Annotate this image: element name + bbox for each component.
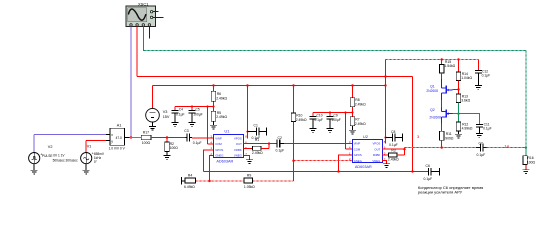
wire R17 to C3 <box>151 137 186 139</box>
svg-text:1.04kΩ: 1.04kΩ <box>461 76 472 80</box>
node junction GPOS net x338 <box>337 170 339 172</box>
wire A1 out to R17 <box>129 137 141 139</box>
resistor R3 <box>382 148 405 162</box>
svg-text:VNEG: VNEG <box>372 159 380 163</box>
svg-text:0.1µF: 0.1µF <box>424 177 433 181</box>
node junction C9 <box>329 111 331 113</box>
svg-text:x: x <box>111 133 113 137</box>
node junction Q2 gate green <box>457 113 459 115</box>
node junction rail2 R6 <box>212 84 214 86</box>
capacitor C12 <box>475 60 490 86</box>
svg-text:0.1µF: 0.1µF <box>482 74 491 78</box>
ground R5 <box>210 125 217 129</box>
svg-text:FDBK: FDBK <box>373 153 381 157</box>
resistor R4 <box>182 173 196 188</box>
wire C2 to U2 VINP <box>284 143 352 145</box>
resistor R11 <box>440 124 454 148</box>
wire green R13-R12 column <box>458 103 460 123</box>
resistor R15 <box>440 60 456 80</box>
svg-text:100Ω: 100Ω <box>142 141 151 145</box>
ground R12 <box>455 134 462 138</box>
svg-text:2.49kΩ: 2.49kΩ <box>216 115 227 119</box>
wire green vertical x526 <box>525 51 527 148</box>
node junction green x526 <box>525 146 527 148</box>
svg-text:C6: C6 <box>426 164 430 168</box>
resistor R14 <box>456 60 472 95</box>
node junction R6-R5 <box>212 105 214 107</box>
capacitor C4 <box>172 107 185 123</box>
wire green C7 to x526 <box>487 147 526 149</box>
node junction rail2 x352 <box>351 84 353 86</box>
svg-text:C7: C7 <box>479 141 483 145</box>
node junction R2 tap <box>166 136 168 138</box>
ground C9 <box>327 129 334 133</box>
svg-text:100Ω: 100Ω <box>527 160 536 164</box>
IC U2 AD603AR <box>349 134 386 169</box>
wire green y50 <box>143 50 526 52</box>
capacitor C8 <box>386 130 403 147</box>
node junction COM2 column <box>344 111 346 113</box>
wire Q2 gate green <box>453 113 459 115</box>
svg-text:0.1µF: 0.1µF <box>314 118 323 122</box>
svg-text:2.49kΩ: 2.49kΩ <box>296 118 307 122</box>
ground C11 <box>476 134 483 138</box>
svg-text:VINP: VINP <box>354 142 361 146</box>
svg-text:100Ω: 100Ω <box>170 146 179 150</box>
ac source V1 <box>81 140 106 170</box>
svg-text:C9: C9 <box>334 113 338 117</box>
bias line y106 first stage <box>175 106 214 108</box>
svg-text:8: 8 <box>245 135 247 139</box>
capacitor C9 <box>327 113 341 129</box>
node junction R8-R7 <box>351 111 353 113</box>
svg-text:C5: C5 <box>196 107 200 111</box>
node junction rail2 end x385 <box>384 84 386 86</box>
svg-text:0.1µF: 0.1µF <box>193 141 202 145</box>
node junction dashed rail R14 <box>457 58 459 60</box>
ground V1 <box>83 170 90 174</box>
svg-text:6.49kΩ: 6.49kΩ <box>184 185 195 189</box>
ground R2 <box>164 156 171 160</box>
node junction GPOS net x412 <box>411 170 413 172</box>
svg-text:3.6kΩ: 3.6kΩ <box>461 99 470 103</box>
wire U2 GNEG dashed <box>294 160 353 162</box>
wire rail2 y85 <box>153 85 386 87</box>
resistor R1 <box>244 138 270 155</box>
svg-text:1.54kΩ: 1.54kΩ <box>444 64 455 68</box>
svg-text:R9: R9 <box>247 173 251 177</box>
svg-text:4.99kΩ: 4.99kΩ <box>462 127 473 131</box>
svg-text:AD603AR: AD603AR <box>355 165 372 169</box>
node junction at A1 output <box>130 136 132 138</box>
wire U1 VNEG to ground <box>244 156 250 160</box>
svg-text:VNEG: VNEG <box>234 154 242 158</box>
svg-text:0.1µF: 0.1µF <box>389 143 398 147</box>
svg-text:0.1µF: 0.1µF <box>477 153 486 157</box>
pulse source V2 <box>29 135 106 170</box>
node junction dashed rail R15 <box>441 58 443 60</box>
svg-text:Q1: Q1 <box>430 85 435 89</box>
svg-text:VPOS: VPOS <box>234 136 242 140</box>
ground C4 <box>172 123 179 127</box>
svg-text:U1: U1 <box>224 129 230 134</box>
scope stub terminal 4 <box>148 26 150 38</box>
ground R7 <box>349 130 356 134</box>
svg-text:VPOS: VPOS <box>373 142 381 146</box>
capacitor C5 <box>189 107 203 123</box>
svg-text:V2: V2 <box>48 145 53 149</box>
node junction R1 feedback <box>268 142 270 144</box>
oscilloscope XSC1 <box>126 1 164 26</box>
svg-text:3: 3 <box>417 134 420 139</box>
svg-text:0.1µF: 0.1µF <box>276 149 285 153</box>
resistor R8 <box>350 86 366 113</box>
svg-text:100µF: 100µF <box>331 118 340 122</box>
svg-text:47.0: 47.0 <box>116 136 122 140</box>
node junction C8 tap <box>384 136 386 138</box>
wire C3 to U1 VINP <box>192 137 214 139</box>
transistor Q2 2N2608 <box>442 107 453 123</box>
svg-text:U2: U2 <box>363 134 369 139</box>
wire U1 OUT to C2 <box>244 143 278 145</box>
svg-text:2.49kΩ: 2.49kΩ <box>252 151 263 155</box>
node junction C5 <box>191 105 193 107</box>
ground R16 <box>522 170 529 174</box>
svg-text:C8: C8 <box>391 130 395 134</box>
resistor R13 <box>456 94 470 103</box>
node junction rail1 x385 <box>384 75 386 77</box>
node junction rail2 x293 <box>292 84 294 86</box>
node junction C1 tap <box>246 130 248 132</box>
node junction R11 green line <box>441 146 443 148</box>
svg-text:1.0 V/V 0 V: 1.0 V/V 0 V <box>109 146 126 150</box>
capacitor C3 <box>184 129 201 145</box>
wire Q1 gate <box>453 89 459 91</box>
svg-text:OUT: OUT <box>374 147 380 151</box>
wire scope C green down <box>142 26 144 51</box>
svg-text:реакции усилителя АРУ: реакции усилителя АРУ <box>418 190 463 195</box>
ground V2 <box>31 170 38 174</box>
svg-text:15V: 15V <box>163 115 170 119</box>
ground C12 <box>475 86 482 90</box>
capacitor C7 <box>476 141 487 157</box>
svg-text:AD603AR: AD603AR <box>216 160 233 164</box>
wire U1 GPOS elbow <box>204 150 214 172</box>
wire U2 OUT <box>382 148 405 150</box>
wire U2 COM stub <box>346 148 353 150</box>
svg-text:500usec 300usec: 500usec 300usec <box>53 159 78 163</box>
wire green to C11 <box>459 114 480 125</box>
svg-text:OUT: OUT <box>236 142 242 146</box>
wire Q1 source to Q2 drain <box>441 100 443 107</box>
svg-text:COM: COM <box>354 147 361 151</box>
svg-text:y: y <box>111 140 113 144</box>
ground V3 <box>149 127 156 131</box>
terminal tick R4 <box>181 177 183 185</box>
wire COM1 vertical x207 <box>207 107 209 145</box>
svg-text:C3: C3 <box>184 129 188 133</box>
svg-text:0.1µF: 0.1µF <box>483 127 492 131</box>
svg-text:GPOS: GPOS <box>215 148 223 152</box>
voltage source V3 15V <box>146 86 170 127</box>
capacitor C6 <box>413 164 440 181</box>
wire gain-control line y171.5 <box>204 171 413 173</box>
svg-text:R1: R1 <box>255 138 259 142</box>
wire scope B red down <box>136 26 138 76</box>
svg-text:C1: C1 <box>254 124 258 128</box>
ground C10 <box>310 129 317 133</box>
resistor R5 <box>211 107 227 126</box>
svg-text:2N2608: 2N2608 <box>426 89 438 93</box>
resistor R10 <box>291 86 307 182</box>
wire U1 COM stub <box>208 143 214 145</box>
svg-text:GNEG: GNEG <box>215 154 223 158</box>
wire vertical x385 <box>385 60 387 144</box>
svg-text:Q2: Q2 <box>430 108 435 112</box>
node junction rail2 x247 <box>246 84 248 86</box>
capacitor C1 <box>248 124 267 140</box>
svg-text:2.49kΩ: 2.49kΩ <box>216 96 227 100</box>
svg-text:A1: A1 <box>117 124 122 128</box>
node junction Q1 gate <box>457 88 459 90</box>
svg-text:VINP: VINP <box>215 136 222 140</box>
wire dashed rail y59 <box>386 59 479 61</box>
svg-text:R17: R17 <box>143 131 149 135</box>
wire U2 GPOS elbow <box>339 155 353 172</box>
capacitor C2 <box>276 136 285 153</box>
svg-text:C2: C2 <box>278 136 282 140</box>
svg-text:C4: C4 <box>179 107 183 111</box>
ground C5 <box>189 123 196 127</box>
svg-text:2N2608: 2N2608 <box>429 115 441 119</box>
svg-text:1.05kΩ: 1.05kΩ <box>244 185 255 189</box>
wire vertical x247 U1 VPOS feed <box>247 86 249 139</box>
svg-text:C10: C10 <box>317 113 323 117</box>
svg-text:0°: 0° <box>94 160 98 164</box>
svg-text:100µF: 100µF <box>193 112 202 116</box>
ground U2 VNEG <box>383 164 390 168</box>
capacitor C11 <box>476 122 492 133</box>
svg-text:XSC1: XSC1 <box>138 1 149 6</box>
svg-text:2.49kΩ: 2.49kΩ <box>355 122 366 126</box>
svg-text:R3: R3 <box>391 149 395 153</box>
wire U1 GNEG elbow <box>210 156 214 182</box>
node junction GNEG1 <box>208 180 210 182</box>
svg-text:2.49kΩ: 2.49kΩ <box>355 102 366 106</box>
wire scope A purple <box>130 26 132 137</box>
capacitor C10 <box>310 113 323 129</box>
node junction GNEG x293 <box>292 160 294 162</box>
svg-text:0V 1 1V: 0V 1 1V <box>53 154 65 158</box>
svg-text:GPOS: GPOS <box>354 153 362 157</box>
wire COM2 vertical x345 <box>345 113 347 150</box>
svg-text:2.49kΩ: 2.49kΩ <box>388 158 399 162</box>
wire vertical x412 <box>412 77 414 173</box>
bias line y112 second stage <box>313 112 353 114</box>
svg-text:GNEG: GNEG <box>354 159 362 163</box>
resistor R6 <box>211 86 227 107</box>
resistor R7 <box>350 113 366 131</box>
svg-text:FDBK: FDBK <box>234 148 242 152</box>
IC U1 AD603AR <box>210 129 247 164</box>
resistor R9 <box>244 173 255 188</box>
svg-text:PULSE: PULSE <box>42 154 52 158</box>
transistor Q1 2N2608 <box>442 79 453 100</box>
wire rail1 y76 <box>137 76 412 78</box>
svg-text:COM: COM <box>215 142 222 146</box>
svg-text:909Ω: 909Ω <box>445 136 454 140</box>
svg-text:V1: V1 <box>87 145 92 149</box>
wire green output y147 <box>405 147 477 149</box>
wire U2 VNEG to ground <box>382 161 387 164</box>
node junction R3 feedback <box>403 148 405 150</box>
resistor R12 <box>456 122 473 134</box>
svg-text:V3: V3 <box>163 110 168 114</box>
svg-text:0.1µF: 0.1µF <box>176 112 185 116</box>
svg-text:14: 14 <box>504 143 509 148</box>
dashed gain net y181 <box>196 180 245 182</box>
resistor R17 100 <box>141 131 151 145</box>
ground U1 VNEG <box>246 160 253 164</box>
resistor R2 <box>165 138 178 156</box>
node junction COM1 column <box>206 105 208 107</box>
svg-text:R4: R4 <box>188 173 192 177</box>
resistor R16 <box>523 148 536 170</box>
multiplier block A1 <box>106 124 130 151</box>
